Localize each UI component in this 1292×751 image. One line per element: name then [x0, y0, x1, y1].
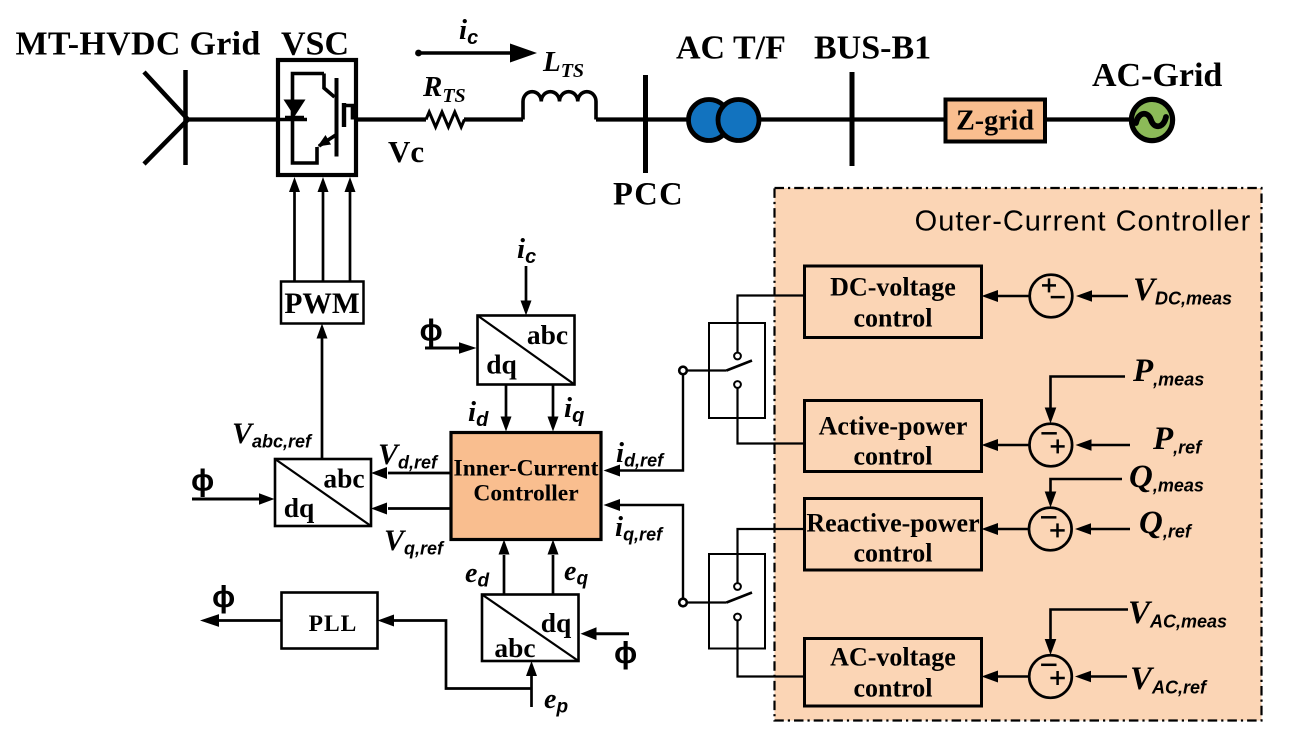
wire i_q [552, 385, 555, 418]
wire P,meas to S2 [1051, 377, 1126, 408]
wire inductor to transformer [596, 117, 690, 121]
wire S1 to DC-voltage box [998, 295, 1030, 298]
svg-text:ϕ: ϕ [212, 579, 235, 614]
block PLL [282, 593, 378, 649]
wire e_p branch to PLL [394, 621, 532, 689]
wire i_d [505, 385, 508, 418]
svg-text:dq: dq [284, 492, 315, 523]
svg-text:Z-grid: Z-grid [956, 106, 1034, 137]
SW2 lever [687, 601, 727, 603]
current arrow i_c [415, 50, 422, 57]
wire S4 to AC-voltage box [998, 675, 1029, 678]
wire PLL output phi [219, 619, 282, 622]
svg-text:dq: dq [486, 349, 517, 380]
svg-text:Active-power: Active-power [819, 412, 968, 441]
VSC IGBT emitter arrow [318, 135, 332, 147]
wire Z-grid to AC source [1045, 117, 1132, 121]
summing junction S4 [1029, 655, 1072, 698]
svg-text:Vc: Vc [388, 134, 424, 169]
wire S3 to Reactive-power box [998, 528, 1029, 531]
inductor L_TS [523, 92, 596, 120]
svg-text:Outer-Current Controller: Outer-Current Controller [915, 206, 1252, 238]
wire e_p [530, 676, 533, 707]
svg-text:control: control [854, 442, 933, 471]
SW2 wire to AC-voltage control [738, 621, 805, 677]
svg-text:PLL: PLL [309, 611, 358, 637]
svg-text:Inner-Current: Inner-Current [454, 456, 599, 482]
wire V_AC,meas to S4 [1051, 610, 1129, 640]
wire abc/dq to PWM [321, 338, 324, 459]
svg-text:dq: dq [541, 607, 572, 638]
node PCC bus bar [643, 75, 648, 173]
switch SW2 box [709, 554, 765, 649]
svg-text:Reactive-power: Reactive-power [806, 509, 979, 538]
svg-text:AC-Grid: AC-Grid [1092, 57, 1222, 94]
wire S2 to Active-power box [998, 444, 1030, 447]
impedance Z-grid [946, 100, 1046, 142]
SW1 wire to DC-voltage control [738, 296, 805, 353]
wire V_d,ref arrow [388, 472, 451, 475]
svg-text:MT-HVDC Grid: MT-HVDC Grid [16, 26, 261, 63]
summing junction S2 [1030, 424, 1073, 467]
SW2 common node [679, 599, 687, 607]
block Active-power control [805, 401, 982, 472]
transformer T1 [689, 100, 760, 141]
svg-text:ϕ: ϕ [420, 312, 443, 347]
MT-HVDC grid node symbol [144, 70, 188, 165]
svg-text:Controller: Controller [473, 481, 578, 507]
summing junction S1 [1030, 275, 1073, 318]
block PWM [281, 282, 364, 324]
wire P,ref to S2 [1090, 444, 1130, 447]
SW1 lever [687, 369, 727, 371]
wire DC bus to VSC [186, 117, 280, 121]
wire V_q,ref arrow [388, 507, 451, 510]
svg-text:ϕ: ϕ [614, 635, 637, 670]
svg-text:DC-voltage: DC-voltage [830, 273, 956, 302]
transform block abc->dq (top) [478, 316, 575, 385]
wire transformer to bus [759, 117, 852, 121]
converter U1 VSC box [278, 60, 356, 175]
SW1 common node [679, 367, 687, 375]
resistor R_TS [426, 112, 464, 127]
svg-text:control: control [854, 539, 933, 568]
VSC diode triangle [284, 100, 306, 117]
wire Q,ref to S3 [1089, 528, 1130, 531]
wire V_DC,meas to S1 [1090, 295, 1128, 298]
svg-text:ϕ: ϕ [191, 463, 214, 498]
svg-text:abc: abc [323, 463, 364, 494]
wire e_d [503, 555, 506, 595]
AC source G1 [1131, 99, 1172, 140]
SW2 throw terminals [734, 583, 741, 590]
wire resistor to inductor [464, 117, 523, 121]
block AC-voltage control [805, 639, 982, 707]
SW1 wire to Active-power control [738, 388, 805, 444]
summing junction S3 [1029, 508, 1072, 551]
block Inner-Current Controller [451, 433, 601, 540]
SW1 throw terminals [734, 353, 741, 360]
wire e_q [552, 555, 555, 595]
svg-text:control: control [854, 674, 933, 703]
wire i_d,ref to ICC [620, 375, 683, 471]
VSC internal IGBT + diode symbol [278, 74, 353, 164]
wire V_AC,ref to S4 [1089, 675, 1127, 678]
wire i_q,ref to ICC [620, 505, 683, 599]
transform block abc->dq (bottom) [482, 595, 579, 662]
block Reactive-power control [805, 499, 982, 571]
block DC-voltage control [805, 266, 982, 338]
phi input to bottom abc/dq [596, 632, 629, 635]
wire bus to Z-grid [852, 117, 945, 121]
svg-text:BUS-B1: BUS-B1 [814, 30, 931, 67]
wire i_c into abc/dq [525, 266, 528, 301]
switch SW1 box [709, 323, 765, 418]
svg-text:AC T/F: AC T/F [676, 30, 786, 67]
svg-text:VSC: VSC [281, 26, 349, 63]
wires PWM to VSC gate arrows [295, 192, 351, 282]
node BUS-B1 bar [850, 72, 855, 166]
outer dashed box: Outer-Current Controller region [775, 188, 1262, 721]
svg-text:control: control [854, 304, 933, 333]
svg-text:abc: abc [527, 319, 568, 350]
wire VSC to resistor [356, 117, 426, 121]
svg-text:abc: abc [494, 632, 535, 663]
svg-text:PCC: PCC [613, 177, 684, 213]
wire Q,meas to S3 [1051, 479, 1123, 492]
SW2 wire to Reactive-power control [738, 529, 805, 583]
svg-text:PWM: PWM [284, 288, 359, 320]
transform block dq->abc (left) [275, 459, 371, 526]
svg-text:AC-voltage: AC-voltage [830, 643, 956, 672]
